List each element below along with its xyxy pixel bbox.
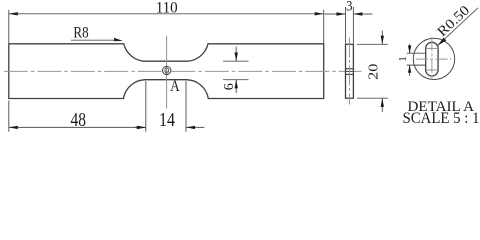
dim 3 extension lines <box>345 7 347 44</box>
dim 20 extension lines <box>357 43 388 45</box>
dim 48 dimension line <box>9 126 146 129</box>
detail horizontal centerline <box>416 58 452 60</box>
dim 1 dimension line (outside arrows) <box>408 44 411 76</box>
dim 14 extension line <box>185 81 187 132</box>
dim 3 dimension line (outside arrows) <box>325 12 373 15</box>
detail vertical centerline <box>431 37 433 81</box>
dim 110 dimension line <box>9 12 324 15</box>
svg-text:R8: R8 <box>73 24 88 42</box>
dim 110 extension lines <box>8 10 10 43</box>
vertical centerline (front view) <box>166 36 168 109</box>
svg-text:1: 1 <box>398 56 409 61</box>
side view rectangle <box>346 44 354 98</box>
svg-text:6: 6 <box>222 83 237 90</box>
detail A boundary circle (front view) <box>163 66 171 74</box>
dim 48 extension lines <box>8 101 10 132</box>
dim 14 dimension line (outside arrows) <box>134 126 204 129</box>
dim 3 text <box>346 0 352 15</box>
svg-text:110: 110 <box>156 0 178 17</box>
svg-text:14: 14 <box>159 109 175 131</box>
dim 20 dimension line (outside arrows) <box>381 31 384 113</box>
R0.50 leader <box>437 8 478 46</box>
R8 leader <box>71 38 123 41</box>
svg-text:A: A <box>170 78 180 95</box>
slot obround (detail view) <box>426 42 438 76</box>
svg-text:SCALE 5 : 1: SCALE 5 : 1 <box>403 110 480 127</box>
dim 6 extension lines <box>223 60 249 62</box>
svg-text:3: 3 <box>346 0 352 15</box>
slit band lines <box>407 52 426 54</box>
dim 6 dimension line (outside arrows) <box>235 47 238 94</box>
side view slot edge lines <box>346 68 354 70</box>
slot cap center ticks <box>427 47 437 49</box>
slot (front view, tiny obround) <box>165 68 168 73</box>
horizontal centerline <box>4 70 362 72</box>
detail A boundary circle (detail view) <box>413 38 454 79</box>
side view vertical centerline <box>348 38 350 105</box>
specimen outline (front view) <box>9 44 324 99</box>
label A <box>170 78 180 95</box>
svg-text:20: 20 <box>367 64 382 80</box>
svg-text:48: 48 <box>71 109 87 131</box>
